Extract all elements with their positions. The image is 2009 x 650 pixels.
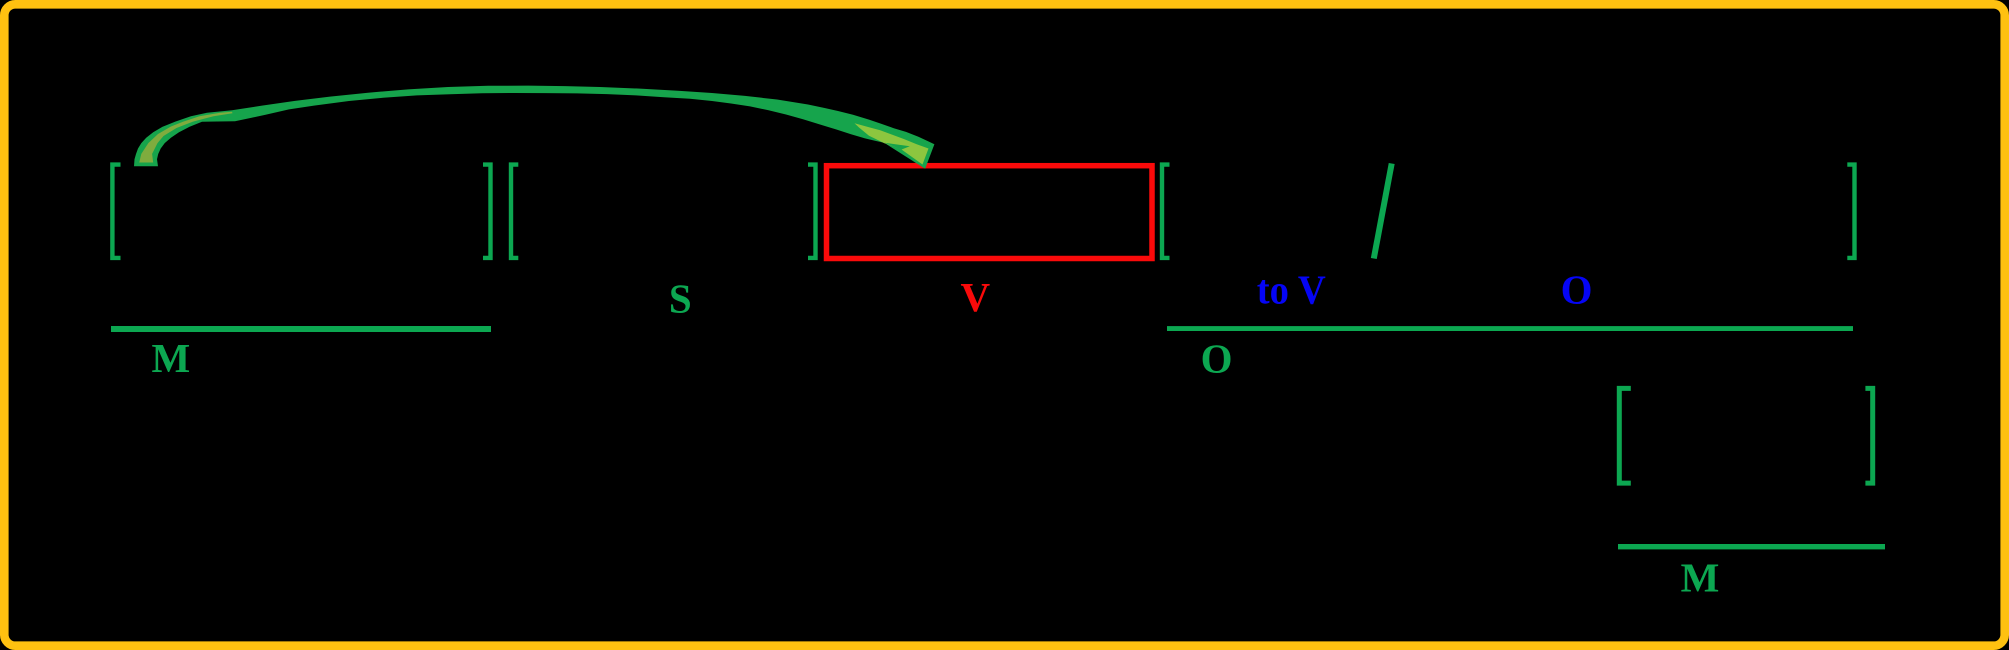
svg-text:M: M [1681,555,1720,601]
svg-text:M: M [151,335,190,381]
svg-text:V: V [960,274,990,320]
bottom bracket ] (modifier phrase close) [1865,388,1872,483]
underline for M (left) [111,326,491,332]
bracket ] (phrase 1 close) [483,165,491,258]
bracket ] (phrase 3 close) [1847,165,1854,258]
bracket [ (phrase 3 open) [1162,165,1170,258]
bracket [ (phrase 2 open) [511,165,518,258]
red verb box [827,166,1153,259]
underline for O (long, right) [1167,326,1853,331]
arrow head light fill (stripe + head) [855,123,929,164]
arrow tail light stripe [139,112,232,163]
svg-text:O: O [1561,267,1593,313]
arrow head barb wedge (dark notch) [884,143,909,150]
bracket [ (phrase 1 open) [112,165,120,258]
green swoosh arrow shaft (from bracket 1 to verb box) [134,86,934,169]
green slash separator [1374,164,1392,259]
bottom bracket [ (modifier phrase open) [1619,388,1631,483]
svg-text:to V: to V [1257,267,1326,313]
bracket ] (phrase 2 close) [808,165,816,258]
svg-text:S: S [669,276,692,322]
underline for bottom M [1618,544,1885,549]
svg-text:O: O [1201,336,1233,382]
